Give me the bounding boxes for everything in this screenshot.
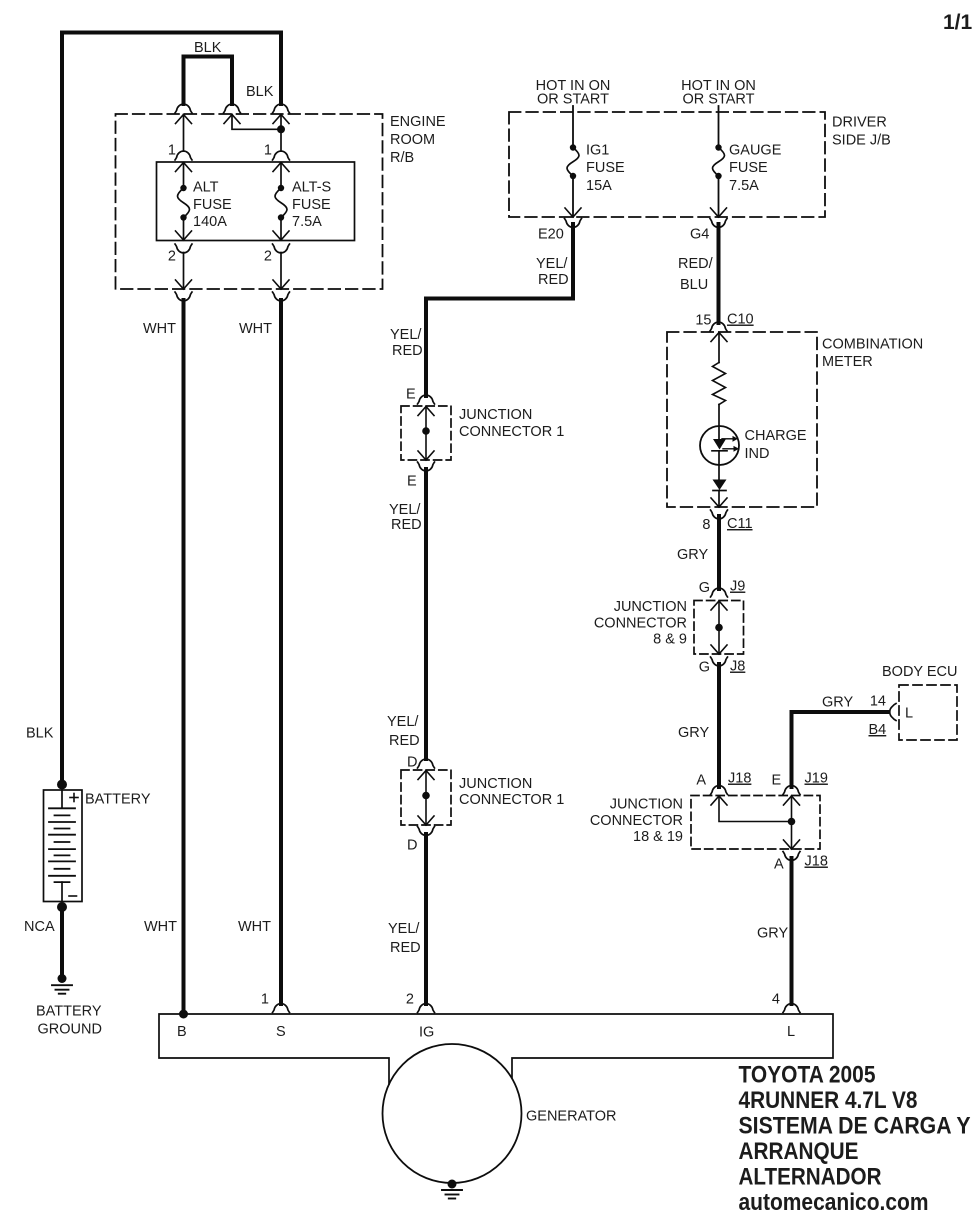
battery negative stub: [61, 882, 63, 901]
svg-text:IG1: IG1: [586, 143, 609, 159]
svg-text:FUSE: FUSE: [193, 197, 232, 213]
arrow out of J/B at G4: [711, 208, 727, 217]
generator circle: [383, 1044, 522, 1183]
connector arc fuse box pin 2 right: [273, 244, 290, 253]
combination meter dashed box: [667, 332, 817, 507]
arrow out of combination meter: [711, 498, 727, 507]
svg-text:18 & 19: 18 & 19: [633, 829, 683, 845]
svg-text:G4: G4: [690, 227, 709, 243]
svg-text:2: 2: [264, 249, 272, 265]
svg-text:G: G: [699, 660, 710, 676]
svg-text:CONNECTOR: CONNECTOR: [590, 813, 683, 829]
svg-text:GROUND: GROUND: [38, 1022, 102, 1038]
svg-text:WHT: WHT: [238, 919, 271, 935]
svg-text:E: E: [406, 387, 416, 403]
fuse GAUGE 7.5A: [713, 144, 725, 179]
svg-text:FUSE: FUSE: [292, 197, 331, 213]
resistor charge indicator: [713, 363, 726, 405]
wire inside combination meter top: [718, 333, 720, 363]
fuse box: [157, 162, 355, 241]
arrow into R/B middle: [224, 115, 240, 124]
connector arc C10 pin 15: [710, 322, 727, 331]
generator ground symbol: [448, 1180, 457, 1189]
wire BLK bridge: [184, 57, 233, 105]
arrow out of R/B right: [273, 280, 289, 289]
svg-text:ARRANQUE: ARRANQUE: [739, 1138, 859, 1165]
svg-text:RED/: RED/: [678, 256, 714, 272]
connector arc E bottom junction connector 1: [418, 462, 435, 471]
arrow into R/B right: [273, 115, 289, 124]
svg-text:FUSE: FUSE: [586, 160, 625, 176]
svg-text:CONNECTOR 1: CONNECTOR 1: [459, 792, 564, 808]
arrow out of fuse box left: [176, 231, 192, 240]
wire YEL/RED to generator IG: [424, 834, 428, 1004]
svg-text:1/1: 1/1: [943, 11, 973, 34]
wire inside R/B left: [183, 115, 185, 152]
svg-text:IND: IND: [745, 446, 770, 462]
svg-text:BLK: BLK: [194, 40, 222, 56]
svg-text:JUNCTION: JUNCTION: [614, 599, 687, 615]
charge indicator lamp circle: [700, 426, 739, 465]
svg-text:15A: 15A: [586, 178, 612, 194]
svg-text:TOYOTA 2005: TOYOTA 2005: [739, 1062, 876, 1089]
svg-text:A: A: [774, 857, 784, 873]
svg-text:GRY: GRY: [757, 926, 788, 942]
svg-text:WHT: WHT: [143, 321, 176, 337]
svg-text:YEL/: YEL/: [387, 714, 419, 730]
svg-text:8: 8: [702, 517, 710, 533]
battery bottom junction dot: [57, 902, 67, 912]
arrow out of J/B at E20: [565, 208, 581, 217]
wire inside junction connector 18 and 19: [719, 796, 792, 822]
wire hot feed IG1: [572, 106, 574, 148]
svg-text:NCA: NCA: [24, 919, 55, 935]
svg-text:JUNCTION: JUNCTION: [459, 407, 532, 423]
connector arc G4: [710, 219, 727, 228]
connector arc C11 pin 8: [711, 510, 728, 519]
arrow into junction connector 8 and 9: [711, 601, 727, 610]
arrow into R/B left: [176, 115, 192, 124]
wire fuse column left: [183, 163, 185, 189]
svg-text:ALT: ALT: [193, 180, 219, 196]
svg-text:D: D: [407, 755, 417, 771]
wire inside junction connector 1 lower: [425, 771, 427, 826]
svg-text:BLK: BLK: [246, 84, 274, 100]
connector arc below R/B left: [175, 292, 192, 301]
svg-text:E20: E20: [538, 227, 564, 243]
svg-text:GRY: GRY: [677, 547, 708, 563]
battery positive stub: [61, 790, 63, 808]
svg-text:RED: RED: [389, 733, 420, 749]
svg-text:COMBINATION: COMBINATION: [822, 337, 923, 353]
svg-text:GRY: GRY: [678, 725, 709, 741]
svg-text:J8: J8: [730, 659, 745, 675]
connector arc below R/B right: [273, 292, 290, 301]
connector arc D bottom junction connector 1 lower: [418, 827, 435, 836]
svg-text:E: E: [772, 773, 782, 789]
svg-text:FUSE: FUSE: [729, 160, 768, 176]
svg-text:YEL/: YEL/: [536, 256, 568, 272]
wire inside junction connector 1 upper: [425, 407, 427, 461]
arrow into junction connector 18 and 19 right: [784, 796, 800, 805]
arrow into combination meter: [711, 333, 727, 342]
arrow into junction connector 1 lower: [418, 771, 434, 780]
svg-text:A: A: [696, 773, 706, 789]
title block: [739, 1062, 971, 1216]
connector arc body ECU pin 14: [890, 704, 896, 721]
LED light arrows: [722, 439, 734, 449]
svg-text:BLK: BLK: [26, 726, 54, 742]
battery box: [44, 790, 83, 902]
svg-text:WHT: WHT: [239, 321, 272, 337]
connector arc D top junction connector 1 lower: [418, 759, 435, 768]
fuse ALT-S 7.5A: [275, 185, 287, 221]
wire inside junction connector 8 and 9: [718, 601, 720, 654]
generator B terminal dot: [179, 1010, 188, 1019]
dot junction connector 1 lower: [422, 792, 430, 800]
svg-text:RED: RED: [392, 343, 423, 359]
svg-text:R/B: R/B: [390, 150, 414, 166]
wire YEL/RED between junction connectors: [424, 469, 428, 759]
svg-text:IG: IG: [419, 1025, 434, 1041]
svg-text:140A: 140A: [193, 214, 227, 230]
connector arc fuse box pin 1 right: [273, 151, 290, 160]
svg-text:BLU: BLU: [680, 277, 708, 293]
svg-text:RED: RED: [390, 940, 421, 956]
svg-text:JUNCTION: JUNCTION: [610, 797, 683, 813]
battery ground symbol: [58, 974, 67, 983]
svg-text:YEL/: YEL/: [390, 327, 422, 343]
svg-text:GENERATOR: GENERATOR: [526, 1109, 617, 1125]
svg-text:BATTERY: BATTERY: [36, 1004, 102, 1020]
svg-text:14: 14: [870, 694, 886, 710]
svg-text:E: E: [407, 474, 417, 490]
connector arc fuse box pin 2 left: [175, 244, 192, 253]
svg-text:BATTERY: BATTERY: [85, 792, 151, 808]
svg-text:7.5A: 7.5A: [729, 178, 759, 194]
body ECU dashed box: [899, 685, 957, 740]
svg-text:OR START: OR START: [683, 92, 755, 108]
svg-text:S: S: [276, 1024, 286, 1040]
wire GRY J18 to generator L: [790, 858, 794, 1004]
svg-text:1: 1: [168, 143, 176, 159]
battery plus sign: [70, 794, 78, 802]
svg-text:GRY: GRY: [822, 695, 853, 711]
wire YEL/RED from E20: [426, 224, 573, 396]
svg-text:WHT: WHT: [144, 919, 177, 935]
wire diode to C11: [718, 491, 720, 508]
wire WHT to generator S: [279, 300, 283, 1004]
LED symbol inside lamp: [713, 439, 726, 450]
svg-text:B: B: [177, 1024, 187, 1040]
svg-text:SISTEMA DE CARGA Y: SISTEMA DE CARGA Y: [739, 1113, 971, 1140]
arrow out of junction connector 1 lower: [418, 816, 434, 825]
wire GRY J8 to J18: [717, 664, 721, 787]
svg-text:YEL/: YEL/: [389, 502, 421, 518]
svg-text:J19: J19: [805, 771, 828, 787]
junction dot R/B: [277, 125, 285, 133]
dot junction connector 8 and 9: [715, 624, 723, 632]
wire RED/BLU from G4: [717, 224, 721, 323]
dot junction connector 1 upper: [422, 427, 430, 435]
connector arc J18 bottom: [783, 852, 800, 861]
junction connector 18 and 19 dashed box: [691, 796, 820, 850]
svg-text:7.5A: 7.5A: [292, 214, 322, 230]
wire R/B exit right: [280, 253, 282, 290]
battery cell plates: [49, 808, 75, 882]
svg-text:D: D: [407, 838, 417, 854]
svg-text:J9: J9: [730, 579, 745, 595]
svg-text:L: L: [787, 1024, 795, 1040]
wire NCA battery to ground: [60, 907, 64, 977]
svg-text:2: 2: [168, 249, 176, 265]
svg-text:ENGINE: ENGINE: [390, 114, 446, 130]
svg-text:4: 4: [772, 992, 780, 1008]
fuse IG1 15A: [567, 144, 579, 179]
connector arc generator pin 4 L: [783, 1004, 800, 1013]
svg-text:METER: METER: [822, 354, 873, 370]
svg-text:BODY ECU: BODY ECU: [882, 664, 957, 680]
svg-text:C11: C11: [727, 516, 753, 532]
svg-text:SIDE J/B: SIDE J/B: [832, 133, 891, 149]
junction connector 1 upper dashed box: [401, 406, 451, 460]
connector arc generator pin 2 IG: [418, 1004, 435, 1013]
battery top junction dot: [57, 780, 67, 790]
svg-text:GAUGE: GAUGE: [729, 143, 782, 159]
connector arc J8: [711, 657, 728, 666]
junction connector 1 lower dashed box: [401, 770, 451, 825]
svg-text:CHARGE: CHARGE: [745, 428, 807, 444]
svg-text:4RUNNER 4.7L V8: 4RUNNER 4.7L V8: [739, 1087, 918, 1114]
svg-text:ALTERNADOR: ALTERNADOR: [739, 1164, 882, 1191]
engine room R/B dashed box: [116, 114, 383, 289]
junction connector 8 and 9 dashed box: [694, 601, 744, 655]
connector arc R/B pin right: [273, 104, 290, 113]
svg-text:J18: J18: [728, 771, 751, 787]
svg-text:2: 2: [406, 992, 414, 1008]
svg-text:B4: B4: [869, 722, 887, 738]
svg-text:ROOM: ROOM: [390, 132, 435, 148]
svg-text:YEL/: YEL/: [388, 921, 420, 937]
svg-text:L: L: [905, 706, 913, 722]
battery minus sign: [69, 895, 77, 897]
connector arc generator pin 1 S: [273, 1004, 290, 1013]
connector arc E20: [565, 219, 582, 228]
connector arc R/B pin left: [175, 104, 192, 113]
arrow out of junction connector 8 and 9: [711, 645, 727, 654]
svg-text:DRIVER: DRIVER: [832, 115, 887, 131]
connector arc J19 top: [783, 786, 800, 795]
svg-text:RED: RED: [391, 517, 422, 533]
driver side J/B dashed box: [509, 112, 825, 217]
svg-text:1: 1: [264, 143, 272, 159]
svg-text:ALT-S: ALT-S: [292, 180, 331, 196]
wire lamp to diode: [718, 451, 720, 480]
svg-text:CONNECTOR: CONNECTOR: [594, 616, 687, 632]
svg-text:OR START: OR START: [537, 92, 609, 108]
generator terminal box: [159, 1014, 833, 1084]
wire GRY C11 to J9: [717, 516, 721, 589]
connector arc J18 top: [711, 786, 728, 795]
connector arc E top junction connector 1: [418, 395, 435, 404]
fuse ALT 140A: [178, 185, 190, 221]
diode: [713, 480, 727, 491]
svg-text:RED: RED: [538, 272, 569, 288]
wire inside R/B right: [280, 115, 282, 152]
arrow into junction connector 18 and 19 left: [711, 796, 727, 805]
wire battery positive main feed: [62, 33, 281, 785]
wire resistor to lamp: [718, 405, 720, 440]
arrow into fuse box right: [273, 163, 289, 172]
arrow into junction connector 1 upper: [418, 407, 434, 416]
dot junction connector 18 and 19: [788, 818, 796, 826]
wire R/B exit left: [183, 253, 185, 290]
wire GRY body ECU branch: [792, 712, 889, 787]
svg-text:G: G: [699, 580, 710, 596]
arrow out of R/B left: [176, 280, 192, 289]
svg-text:automecanico.com: automecanico.com: [739, 1189, 929, 1216]
connector arc R/B pin middle: [224, 104, 241, 113]
arrow out of junction connector 1 upper: [418, 451, 434, 460]
svg-text:CONNECTOR 1: CONNECTOR 1: [459, 424, 564, 440]
svg-text:1: 1: [261, 992, 269, 1008]
connector arc J9: [711, 588, 728, 597]
arrow out of junction connector 18 and 19: [784, 840, 800, 849]
svg-text:8 & 9: 8 & 9: [653, 632, 687, 648]
svg-text:15: 15: [695, 313, 711, 329]
arrow out of fuse box right: [273, 231, 289, 240]
connector arc fuse box pin 1 left: [175, 151, 192, 160]
arrow into fuse box left: [176, 163, 192, 172]
svg-text:JUNCTION: JUNCTION: [459, 776, 532, 792]
wire fuse column right: [280, 163, 282, 189]
svg-text:C10: C10: [727, 312, 754, 328]
wire WHT to generator B: [182, 300, 186, 1014]
wire inside R/B middle jog: [232, 115, 281, 130]
wire hot feed GAUGE: [718, 106, 720, 148]
svg-text:J18: J18: [805, 854, 828, 870]
